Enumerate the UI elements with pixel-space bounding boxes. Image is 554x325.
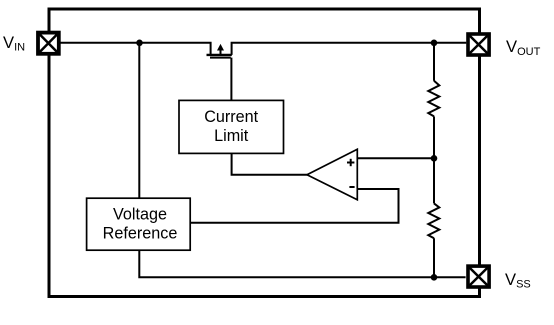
wire: drain to VOUT rail xyxy=(232,43,467,55)
wire: op-amp minus input feedback loop to voltage reference xyxy=(190,189,398,223)
svg-text:VIN: VIN xyxy=(3,33,25,54)
pin VOUT (crossed terminal) xyxy=(468,34,489,55)
wire: voltage reference bottom to VSS rail xyxy=(139,250,465,277)
wire: VIN rail to pass transistor source xyxy=(61,43,211,55)
svg-text:Voltage: Voltage xyxy=(113,206,167,224)
wire: divider upper segment xyxy=(433,43,435,81)
transistor Q1 (PMOS pass element) xyxy=(207,44,232,58)
wire: divider lower segment xyxy=(433,238,435,277)
svg-text:Limit: Limit xyxy=(214,127,249,145)
svg-text:VOUT: VOUT xyxy=(506,37,541,58)
svg-text:Reference: Reference xyxy=(103,225,178,243)
node: feedback tap junction xyxy=(431,155,438,162)
node: VOUT divider junction xyxy=(431,40,438,47)
wire: current limit to op-amp output xyxy=(232,153,308,174)
pin VIN (crossed terminal) xyxy=(38,33,59,54)
resistor R1 xyxy=(428,81,439,117)
node: VSS divider junction xyxy=(431,274,438,281)
op-amp U1 (error amplifier) xyxy=(307,149,357,200)
wire: VIN branch down to voltage reference xyxy=(138,43,140,198)
wire: gate to current limit xyxy=(230,58,232,101)
node: VIN branch junction xyxy=(136,40,143,47)
svg-text:Current: Current xyxy=(204,108,258,126)
svg-text:VSS: VSS xyxy=(505,270,531,291)
block: Current Limit xyxy=(179,100,284,153)
border frame xyxy=(49,9,480,297)
pin VSS (crossed terminal) xyxy=(468,266,489,287)
block: Voltage Reference xyxy=(87,198,191,250)
resistor R2 xyxy=(428,203,439,238)
wire: op-amp plus input to divider tap xyxy=(357,157,434,159)
wire: divider middle segment xyxy=(433,116,435,203)
